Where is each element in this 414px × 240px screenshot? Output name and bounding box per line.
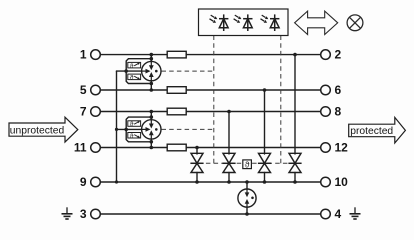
wire TVS V2 vertical from line 8 xyxy=(228,112,230,155)
bracket thermal disconnect group 1 xyxy=(126,59,151,84)
terminal 10 xyxy=(321,177,331,187)
svg-text:12: 12 xyxy=(335,141,349,155)
gas discharge tube F1 (3-electrode) xyxy=(142,61,161,80)
wire line 1 left segment xyxy=(100,54,167,56)
terminal 9 xyxy=(91,177,101,187)
svg-text:10: 10 xyxy=(335,175,349,189)
terminal 2 xyxy=(321,50,331,60)
terminal 7 xyxy=(91,107,101,117)
resistor R4 xyxy=(167,144,186,151)
wire line 7 right segment xyxy=(186,111,321,113)
svg-text:1: 1 xyxy=(80,48,87,62)
terminal 5 xyxy=(91,85,101,95)
terminal 4 xyxy=(321,209,331,219)
thermal disconnect T2b (group 2 lower) xyxy=(128,133,141,140)
wire line 9 (common bus) xyxy=(100,181,320,183)
LED 1 xyxy=(210,14,229,31)
thermal disconnect T1a (group 1 upper) xyxy=(128,62,141,69)
terminal 3 xyxy=(91,209,101,219)
wire line 3 (earth bus) xyxy=(100,213,320,215)
wire TVS V3 vertical from line 6 xyxy=(264,90,266,154)
TVS diode V2 xyxy=(222,153,235,172)
terminal 6 xyxy=(321,85,331,95)
GDT F1 arrows xyxy=(142,62,158,81)
TVS diode V1 xyxy=(190,153,203,172)
wire TVS V4 vertical from line 2 xyxy=(294,55,296,154)
resistor R1 xyxy=(167,51,186,58)
wire line 11 right segment xyxy=(186,147,321,149)
wire GDT F1 vertical line1-line5 xyxy=(150,55,152,90)
terminal 12 xyxy=(321,143,331,153)
wire GDT F2 vertical line7-line11 xyxy=(150,112,152,148)
ground symbol left xyxy=(62,207,73,219)
dashed signal line from F1 to LED column xyxy=(162,70,214,72)
wire group2 center electrode xyxy=(117,128,142,130)
bracket thermal disconnect group 2 xyxy=(126,117,151,142)
terminal 1 xyxy=(91,50,101,60)
terminal 8 xyxy=(321,107,331,117)
svg-text:3: 3 xyxy=(80,207,87,221)
TVS diode V4 xyxy=(288,153,301,172)
thermal disconnect T2a (group 2 upper) xyxy=(128,121,141,128)
wire group1 center electrode xyxy=(117,70,142,72)
ground symbol right xyxy=(350,207,361,219)
svg-text:2: 2 xyxy=(335,48,342,62)
wire TVS V1 verticals xyxy=(196,148,198,155)
thermal disconnect T1b (group 1 lower) xyxy=(128,74,141,81)
svg-text:9: 9 xyxy=(80,175,87,189)
terminal 11 xyxy=(91,143,101,153)
remote indication lamp xyxy=(347,15,363,31)
dashed vertical LED link right xyxy=(280,36,282,164)
svg-text:5: 5 xyxy=(80,83,87,97)
dashed vertical LED link left xyxy=(213,36,215,164)
bidirectional signal arrow xyxy=(295,11,338,34)
svg-text:7: 7 xyxy=(80,105,87,119)
wire line 7 left segment xyxy=(100,111,167,113)
thermal disconnect box T3 in TVS row xyxy=(243,159,252,169)
wire line 5 right segment xyxy=(186,89,321,91)
dashed signal line from F2 to LED column xyxy=(162,128,214,130)
mechanical coupling dashed line of TVS row xyxy=(191,162,302,164)
svg-text:6: 6 xyxy=(335,83,342,97)
GDT F3 arrows xyxy=(245,189,254,207)
LED 3 xyxy=(261,14,280,31)
svg-text:unprotected: unprotected xyxy=(10,125,65,136)
wire GDT F3 vertical line9-line3 xyxy=(246,182,248,214)
protected flow arrow xyxy=(349,117,406,143)
gas discharge tube F3 (2-electrode) xyxy=(238,189,256,207)
TVS diode V3 xyxy=(258,153,271,172)
svg-text:ϑ: ϑ xyxy=(245,159,250,169)
wire center-electrode vertical to line 9 xyxy=(116,71,118,182)
resistor R3 xyxy=(167,108,186,115)
wire line 5 left segment xyxy=(100,89,167,91)
status LED box xyxy=(199,9,289,36)
svg-text:protected: protected xyxy=(350,126,393,137)
svg-text:8: 8 xyxy=(335,105,342,119)
unprotected flow arrow xyxy=(9,117,78,142)
svg-text:4: 4 xyxy=(335,207,342,221)
gas discharge tube F2 (3-electrode) xyxy=(142,120,161,139)
svg-text:11: 11 xyxy=(74,141,87,155)
LED 2 xyxy=(234,14,253,31)
GDT F2 arrows xyxy=(142,120,158,139)
resistor R2 xyxy=(167,87,186,94)
wire line 1 right segment xyxy=(186,54,321,56)
wire line 11 left segment xyxy=(100,147,167,149)
